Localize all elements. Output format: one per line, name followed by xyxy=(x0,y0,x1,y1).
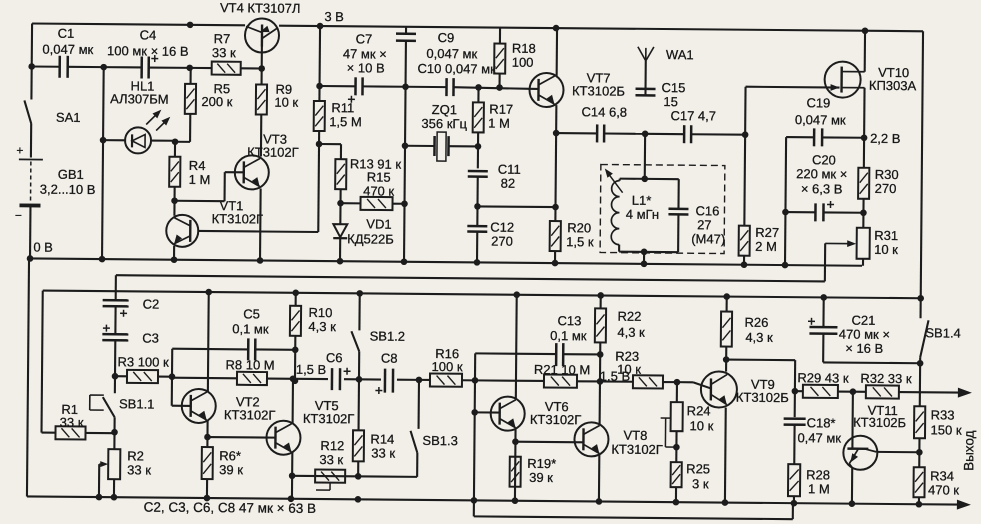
svg-text:200 к: 200 к xyxy=(201,94,232,109)
junction C10 node xyxy=(402,83,409,90)
svg-text:R19*: R19* xyxy=(527,456,556,471)
switch SA1 xyxy=(30,66,32,99)
capacitor C8 xyxy=(397,379,419,381)
svg-text:C12: C12 xyxy=(490,220,514,235)
svg-text:R15: R15 xyxy=(367,169,391,184)
resistor R2 (trim) xyxy=(113,432,115,449)
wire left border top xyxy=(31,23,33,66)
svg-text:33 к: 33 к xyxy=(319,452,343,467)
wire ground return y476 xyxy=(292,476,417,477)
resistor R10 xyxy=(295,293,297,306)
junction R4 bottom xyxy=(171,197,178,204)
capacitor C6 xyxy=(295,378,328,380)
junction C5 right xyxy=(292,346,299,353)
svg-text:C18*: C18* xyxy=(807,415,836,430)
junction R15 right xyxy=(401,200,408,207)
output arrow top xyxy=(958,388,972,398)
svg-text:27: 27 xyxy=(697,217,712,232)
diode VD1 xyxy=(339,203,341,224)
resistor R23 xyxy=(600,380,633,382)
svg-text:GB1: GB1 xyxy=(58,167,84,182)
svg-text:R29 43 к: R29 43 к xyxy=(797,370,849,385)
svg-text:SB1.2: SB1.2 xyxy=(370,328,406,343)
svg-text:4,3 к: 4,3 к xyxy=(745,330,773,345)
svg-text:КД522Б: КД522Б xyxy=(347,231,394,246)
svg-text:R34: R34 xyxy=(930,468,954,483)
wire VT3 base from R4 node xyxy=(175,200,225,203)
svg-text:R12: R12 xyxy=(320,438,344,453)
resistor R9 xyxy=(256,84,267,114)
svg-text:R27: R27 xyxy=(755,225,779,240)
junction R23 right xyxy=(674,379,681,386)
junction R7 right / VT4 base xyxy=(258,65,265,72)
junction VT6 emitter xyxy=(512,438,519,445)
svg-text:R7: R7 xyxy=(214,31,231,46)
resistor R27 xyxy=(743,135,746,226)
svg-text:0,047 мк: 0,047 мк xyxy=(795,112,846,127)
svg-text:R33: R33 xyxy=(931,407,955,422)
wire VT6 emitter to VT8 base xyxy=(515,441,583,444)
svg-text:0,47 мк: 0,47 мк xyxy=(797,430,841,445)
junction C17 right xyxy=(742,131,749,138)
svg-text:C9: C9 xyxy=(438,30,455,45)
junction R14 bottom xyxy=(355,473,362,480)
svg-text:3,2...10 В: 3,2...10 В xyxy=(40,182,96,197)
svg-text:0,047 мк: 0,047 мк xyxy=(426,46,477,61)
svg-text:C15: C15 xyxy=(661,80,685,95)
transistor VT11 xyxy=(843,436,877,470)
resistor R28 xyxy=(788,464,800,496)
resistor R20 xyxy=(550,221,561,251)
LED HL1 xyxy=(103,139,126,141)
resistor R15 xyxy=(341,202,361,204)
resistor R24 (trim) xyxy=(676,382,678,402)
capacitor C5 xyxy=(171,349,173,377)
resistor R8 xyxy=(172,377,237,380)
svg-text:R31: R31 xyxy=(874,228,898,243)
svg-text:C7: C7 xyxy=(356,31,373,46)
capacitor C16 xyxy=(677,179,679,208)
svg-text:100: 100 xyxy=(512,55,534,70)
svg-text:10 к: 10 к xyxy=(874,242,898,257)
wire C9 node to rail xyxy=(404,87,406,262)
svg-text:Выход: Выход xyxy=(961,430,976,471)
svg-text:100 к: 100 к xyxy=(432,359,463,374)
svg-text:33 к: 33 к xyxy=(60,415,84,430)
resistor R26 xyxy=(726,297,728,312)
wiper R24 tap xyxy=(661,417,671,419)
svg-text:C20: C20 xyxy=(812,152,836,167)
svg-text:270: 270 xyxy=(491,234,513,249)
resistor R12 (trim) xyxy=(315,469,345,482)
wire VT10 gate xyxy=(744,87,747,135)
resistor R14 xyxy=(357,381,360,430)
inductor L1 xyxy=(619,179,621,181)
junction HL1 xyxy=(100,137,107,144)
svg-text:КТ3102Б: КТ3102Б xyxy=(736,390,789,405)
svg-text:R17: R17 xyxy=(489,101,513,116)
wire HL1 vertical xyxy=(102,67,104,259)
svg-text:1 М: 1 М xyxy=(189,172,211,187)
svg-text:× 16 В: × 16 В xyxy=(845,341,883,356)
resistor R22 xyxy=(600,295,602,308)
node 2.2V xyxy=(861,134,868,141)
svg-text:33 к: 33 к xyxy=(212,45,236,60)
svg-text:R8 10 М: R8 10 М xyxy=(225,357,274,372)
resistor R25 xyxy=(671,462,682,487)
junction R16 right / VT6 base node xyxy=(472,377,479,384)
svg-text:C13: C13 xyxy=(558,313,582,328)
svg-text:1,5 М: 1,5 М xyxy=(329,114,362,129)
resistor R31 (pot) xyxy=(857,228,870,259)
svg-text:R22: R22 xyxy=(617,309,641,324)
capacitor C14 xyxy=(556,132,597,134)
svg-text:4 мГн: 4 мГн xyxy=(626,207,659,222)
svg-text:SB1.4: SB1.4 xyxy=(925,325,961,340)
svg-text:КТ3102Б: КТ3102Б xyxy=(853,415,906,430)
battery GB1 xyxy=(19,158,43,160)
svg-text:R3 100 к: R3 100 к xyxy=(117,354,169,369)
svg-text:КТ3102Г: КТ3102Г xyxy=(224,407,276,422)
resistor R33 xyxy=(914,406,925,438)
junction R24 bottom xyxy=(673,444,680,451)
svg-text:C11: C11 xyxy=(498,162,521,177)
svg-text:VT8: VT8 xyxy=(623,428,647,443)
capacitor C15 xyxy=(636,88,656,91)
svg-text:КП303А: КП303А xyxy=(869,78,917,93)
wire VT6 node vertical x476 xyxy=(474,380,475,516)
junction SB1.2 bottom xyxy=(356,376,363,383)
svg-text:1,5 В: 1,5 В xyxy=(296,362,326,377)
resistor R16 xyxy=(419,379,430,381)
svg-text:−: − xyxy=(15,208,22,222)
resistor R34 xyxy=(918,452,920,467)
svg-text:C6: C6 xyxy=(326,350,343,365)
junction C18 top xyxy=(792,388,799,395)
resistor R32 xyxy=(853,391,866,393)
svg-text:R20: R20 xyxy=(567,220,591,235)
wire lower return xyxy=(474,516,793,519)
wire VT9 collector to C18 node xyxy=(726,359,795,362)
resistor R29 xyxy=(795,390,803,392)
svg-text:R25: R25 xyxy=(686,461,710,476)
wire 0V rail top section xyxy=(30,258,862,265)
resistor R18 xyxy=(499,28,501,44)
junction R26 bottom xyxy=(723,356,730,363)
svg-text:WA1: WA1 xyxy=(666,47,694,62)
wire line B (bottom supply) xyxy=(43,291,921,299)
svg-text:R2: R2 xyxy=(127,448,144,463)
capacitor C7 xyxy=(320,85,356,87)
junction R11 bottom xyxy=(316,141,323,148)
svg-text:33 к: 33 к xyxy=(127,462,151,477)
resistor R17 xyxy=(477,87,479,102)
svg-text:R6*: R6* xyxy=(219,448,241,463)
wire VT3 emitter to rail xyxy=(259,188,262,260)
transistor VT8 xyxy=(574,422,608,456)
wire tank bottom xyxy=(618,245,620,252)
svg-text:C3: C3 xyxy=(142,330,159,345)
svg-text:220 мк ×: 220 мк × xyxy=(796,166,847,181)
capacitor C3 xyxy=(114,306,116,334)
capacitor C12 xyxy=(476,206,478,225)
svg-text:R14: R14 xyxy=(370,431,394,446)
svg-text:R18: R18 xyxy=(512,41,536,56)
svg-text:VT4 КТ3107Л: VT4 КТ3107Л xyxy=(220,0,301,16)
junction SB1.1 bottom xyxy=(111,429,118,436)
svg-text:КТ3102Г: КТ3102Г xyxy=(611,442,663,457)
svg-text:R26: R26 xyxy=(744,315,768,330)
wire left border bottom xyxy=(27,258,29,496)
wire C11-C12 node xyxy=(477,205,555,208)
svg-text:C2, C3, C6, C8 47 мк × 63 В: C2, C3, C6, C8 47 мк × 63 В xyxy=(144,499,317,516)
svg-text:C5: C5 xyxy=(243,306,260,321)
svg-text:0,1 мк: 0,1 мк xyxy=(550,328,587,343)
wiper R2 xyxy=(99,463,105,465)
crystal ZQ1 xyxy=(405,145,434,147)
svg-text:× 6,3 В: × 6,3 В xyxy=(801,181,843,196)
svg-text:C19: C19 xyxy=(806,95,830,110)
svg-text:10 к: 10 к xyxy=(274,95,298,110)
svg-text:270: 270 xyxy=(875,181,897,196)
svg-text:C4: C4 xyxy=(140,27,157,42)
capacitor C2 xyxy=(103,299,129,302)
junction C13 right xyxy=(597,351,604,358)
resistor R3 xyxy=(115,375,127,377)
junction C1 wire xyxy=(28,63,35,70)
svg-text:C2: C2 xyxy=(143,296,160,311)
svg-text:C1: C1 xyxy=(58,26,75,41)
resistor R11 xyxy=(314,101,325,131)
capacitor C20 xyxy=(785,211,815,213)
junction R11 top xyxy=(316,83,323,90)
svg-text:0,047 мк: 0,047 мк xyxy=(42,42,93,57)
svg-text:× 10 В: × 10 В xyxy=(347,60,385,75)
svg-text:VD1: VD1 xyxy=(366,216,391,231)
svg-text:КТ3102Б: КТ3102Б xyxy=(572,83,625,98)
svg-text:15: 15 xyxy=(663,94,678,109)
junction ZQ1 wire xyxy=(402,142,409,149)
transistor VT6 xyxy=(491,397,525,431)
junction R13 bottom xyxy=(337,200,344,207)
dashed box L1 contour xyxy=(600,164,725,253)
capacitor C1 xyxy=(32,65,60,67)
svg-text:0,1 мк: 0,1 мк xyxy=(232,321,269,336)
capacitor C13 xyxy=(475,352,556,355)
wire VT2 emitter to VT5 base xyxy=(207,436,266,439)
capacitor C4 xyxy=(104,66,142,68)
junction C8 right xyxy=(416,377,423,384)
svg-text:3 к: 3 к xyxy=(692,476,709,491)
svg-text:2 М: 2 М xyxy=(755,239,777,254)
junction C14 wire xyxy=(553,130,560,137)
resistor R21 xyxy=(475,379,544,382)
transistor VT10 (JFET) xyxy=(824,61,860,97)
resistor R30 xyxy=(863,138,865,168)
svg-text:R4: R4 xyxy=(189,158,206,173)
svg-text:C21: C21 xyxy=(852,313,876,328)
svg-text:C8: C8 xyxy=(381,351,398,366)
switch SB1.4 xyxy=(919,298,921,318)
transistor VT5 xyxy=(266,421,300,455)
svg-text:SB1.3: SB1.3 xyxy=(422,433,458,448)
svg-text:ZQ1: ZQ1 xyxy=(432,102,457,117)
svg-text:10 к: 10 к xyxy=(690,418,714,433)
svg-text:R28: R28 xyxy=(806,467,830,482)
junction VT2 emitter xyxy=(204,434,211,441)
capacitor C9 xyxy=(405,27,407,33)
svg-text:R24: R24 xyxy=(687,403,711,418)
resistor R13 xyxy=(319,143,341,145)
resistor R5 xyxy=(190,68,192,84)
node 1.5V at R23 xyxy=(597,378,604,385)
svg-text:470 к: 470 к xyxy=(928,482,959,497)
wiper R31 xyxy=(825,242,853,244)
antenna WA1 xyxy=(644,61,646,96)
svg-text:150 к: 150 к xyxy=(930,422,961,437)
svg-text:10 к: 10 к xyxy=(617,362,641,377)
svg-text:КТ3102Г: КТ3102Г xyxy=(303,411,355,426)
svg-text:АЛ307БМ: АЛ307БМ xyxy=(110,91,169,107)
junction bottom rail xyxy=(96,494,103,501)
transistor VT4 (PNP) xyxy=(245,18,279,52)
junction 0V rail xyxy=(27,255,34,262)
svg-text:39 к: 39 к xyxy=(529,470,553,485)
svg-text:39 к: 39 к xyxy=(219,462,243,477)
wire tank top xyxy=(620,178,679,181)
capacitor C21 xyxy=(822,297,824,326)
wire C13 top branch xyxy=(474,353,476,380)
junction R29 right / VT11 base xyxy=(850,388,857,395)
resistor R6 xyxy=(202,447,213,479)
switch SB1.2 xyxy=(358,293,360,330)
svg-text:3 В: 3 В xyxy=(324,9,344,24)
svg-text:470 к: 470 к xyxy=(363,183,394,198)
transistor VT1 xyxy=(166,215,198,247)
svg-text:КТ3102Г: КТ3102Г xyxy=(247,144,299,159)
junction R10 bottom xyxy=(292,377,299,384)
junction line B xyxy=(205,289,212,296)
svg-text:КТ3102Г: КТ3102Г xyxy=(530,412,582,427)
svg-text:33 к: 33 к xyxy=(371,445,395,460)
svg-text:R32 33 к: R32 33 к xyxy=(860,371,912,386)
svg-text:L1*: L1* xyxy=(632,193,652,208)
wire C19/C20 ground leg xyxy=(785,137,786,265)
svg-text:R30: R30 xyxy=(875,167,899,182)
capacitor C19 xyxy=(786,136,814,138)
switch SB1.1 (button) xyxy=(114,376,116,393)
svg-text:82: 82 xyxy=(501,176,516,191)
transistor VT9 xyxy=(701,371,737,407)
svg-text:1 М: 1 М xyxy=(488,115,510,130)
wire C21 to SB1.4 xyxy=(823,361,920,364)
transistor VT7 xyxy=(529,73,563,107)
wire bottom rail xyxy=(27,496,958,504)
junction SB1.4 bottom xyxy=(917,360,924,367)
junction VT5 collector xyxy=(290,375,297,382)
resistor R19 xyxy=(510,457,521,487)
capacitor C11 xyxy=(477,146,479,168)
svg-text:2,2 В: 2,2 В xyxy=(870,131,900,146)
svg-text:(М47): (М47) xyxy=(691,231,725,246)
svg-text:0 В: 0 В xyxy=(33,240,53,255)
wire top supply bus 3V xyxy=(32,23,245,25)
svg-text:R10: R10 xyxy=(309,305,333,320)
resistor R4 xyxy=(174,142,176,157)
capacitor C17 xyxy=(645,133,684,135)
svg-text:356 кГц: 356 кГц xyxy=(421,116,467,131)
wiper R12 tap xyxy=(329,483,331,490)
svg-text:SA1: SA1 xyxy=(56,110,81,125)
svg-text:C17 4,7: C17 4,7 xyxy=(670,108,716,123)
svg-text:C14 6,8: C14 6,8 xyxy=(581,104,627,119)
svg-text:1,5 к: 1,5 к xyxy=(566,234,594,249)
svg-text:4,3 к: 4,3 к xyxy=(308,319,336,334)
resistor R1 xyxy=(42,432,56,434)
junction R33 bottom xyxy=(916,449,923,456)
junction R3 xyxy=(112,373,119,380)
transistor VT2 xyxy=(182,389,216,423)
svg-text:1 М: 1 М xyxy=(808,481,830,496)
transistor VT3 xyxy=(235,155,269,189)
svg-text:100 мк × 16 В: 100 мк × 16 В xyxy=(107,43,189,59)
switch SB1.3 xyxy=(418,380,421,429)
svg-text:КТ3102Г: КТ3102Г xyxy=(212,211,264,226)
svg-text:+: + xyxy=(16,143,23,157)
svg-text:4,3 к: 4,3 к xyxy=(617,325,645,340)
wire line A (C2 to R31 wiper) xyxy=(116,275,825,281)
resistor R7 xyxy=(190,67,212,69)
wire right border xyxy=(921,31,923,298)
wire R23 to VT9 base xyxy=(677,381,693,383)
wire 3V drop x318 xyxy=(318,26,321,86)
junction top bus xyxy=(187,22,194,29)
svg-text:SB1.1: SB1.1 xyxy=(119,396,155,411)
svg-text:С16: С16 xyxy=(695,203,719,218)
capacitor C18 xyxy=(794,391,796,417)
svg-text:C10 0,047 мк: C10 0,047 мк xyxy=(418,61,497,77)
wire VT1 base to R11 node xyxy=(260,230,318,233)
capacitor C10 xyxy=(406,86,447,88)
trimmer arrow L1 xyxy=(607,172,623,193)
junction R12 left xyxy=(289,472,296,479)
